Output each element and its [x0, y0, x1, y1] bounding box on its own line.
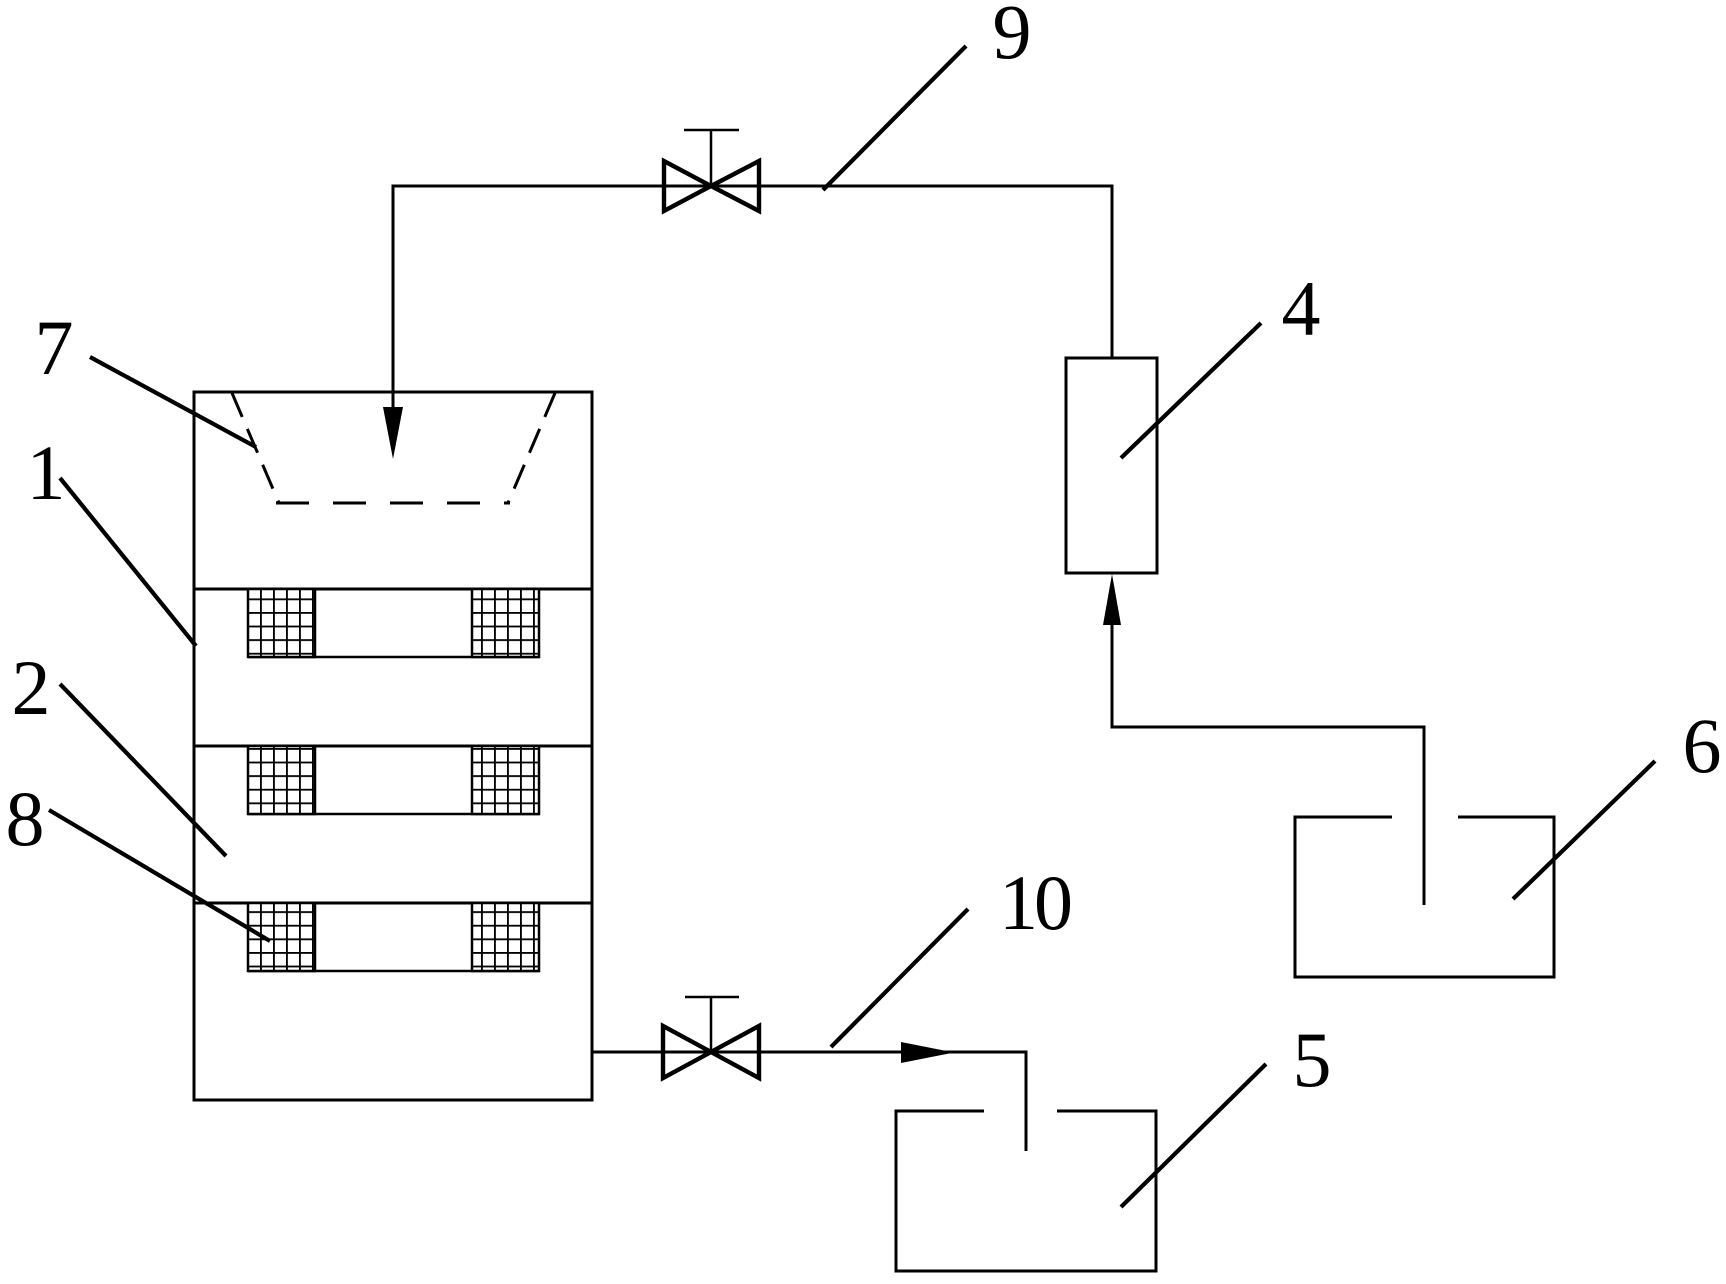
- arrow: up into condenser 4: [1103, 574, 1121, 625]
- pipe: bottom outlet line 10: [592, 1052, 1026, 1151]
- funnel 7 (dashed hopper): [232, 393, 555, 503]
- svg-text:8: 8: [6, 775, 45, 862]
- svg-text:7: 7: [35, 304, 74, 391]
- packing block 8 band1 left (crosshatch): [248, 589, 315, 657]
- tray band 1 top line: [194, 588, 592, 591]
- leader line 1: [60, 478, 196, 646]
- valve V10 handle: [685, 996, 739, 999]
- leader line 7: [90, 357, 256, 447]
- svg-text:10: 10: [999, 859, 1071, 946]
- valve V9 stem: [710, 130, 713, 186]
- vessel 5 (open-top tank with dip tube gap): [896, 1111, 1156, 1271]
- pipe: feed riser into tank: [393, 186, 1112, 410]
- leader line 4: [1121, 323, 1261, 458]
- tray band 1 bottom line: [248, 656, 539, 659]
- svg-text:4: 4: [1282, 265, 1321, 352]
- packing block band2 left (crosshatch): [248, 746, 315, 814]
- tank 1 (reactor vessel outline): [194, 392, 592, 1100]
- leader line 8: [49, 810, 270, 941]
- svg-text:9: 9: [993, 0, 1032, 75]
- svg-text:6: 6: [1683, 702, 1722, 789]
- arrow: flow to vessel 5: [901, 1042, 954, 1063]
- valve V10 body: [663, 1026, 759, 1078]
- svg-text:2: 2: [12, 644, 51, 731]
- tray band 2 bottom line: [248, 813, 539, 816]
- valve V9 body: [664, 161, 759, 211]
- packing block band3 right (crosshatch): [472, 903, 539, 971]
- packing block band3 left (crosshatch): [248, 903, 315, 971]
- valve V10 stem: [710, 997, 713, 1052]
- vessel 6 (open-top tank with dip tube gap): [1295, 817, 1554, 977]
- valve V9 handle: [684, 129, 739, 132]
- condenser 4: [1066, 358, 1157, 573]
- svg-text:5: 5: [1293, 1016, 1332, 1103]
- packing block band2 right (crosshatch): [472, 746, 539, 814]
- tray band 3 bottom line: [248, 970, 539, 973]
- tray band 2 top line: [194, 745, 592, 748]
- packing block band1 right (crosshatch): [472, 589, 539, 657]
- arrow: feed into funnel: [383, 407, 403, 459]
- leader line 2: [60, 684, 226, 856]
- leader line 5: [1121, 1064, 1266, 1207]
- leader line 6: [1513, 761, 1655, 899]
- tray band 3 top line: [194, 902, 592, 905]
- svg-text:1: 1: [27, 429, 66, 516]
- pipe: riser from vessel 6: [1112, 620, 1424, 905]
- leader line 9: [823, 46, 966, 190]
- leader line 10: [831, 909, 968, 1047]
